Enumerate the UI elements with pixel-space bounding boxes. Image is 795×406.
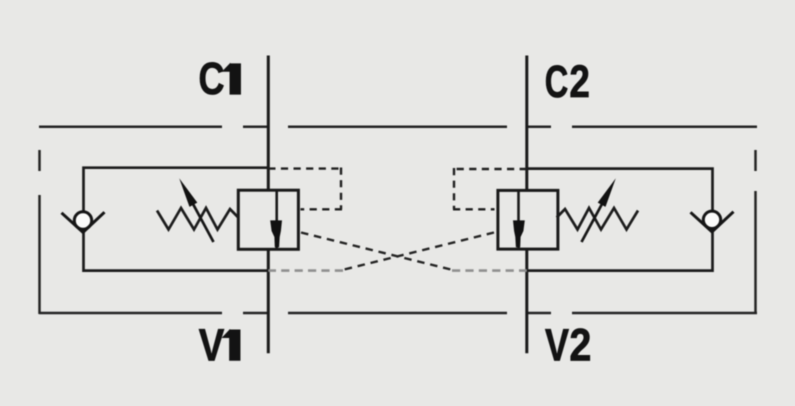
svg-text:C: C xyxy=(545,56,569,107)
svg-text:V: V xyxy=(545,319,570,370)
svg-text:2: 2 xyxy=(569,56,590,107)
svg-text:C: C xyxy=(199,53,225,104)
svg-text:2: 2 xyxy=(569,319,591,370)
svg-text:V: V xyxy=(199,319,225,370)
